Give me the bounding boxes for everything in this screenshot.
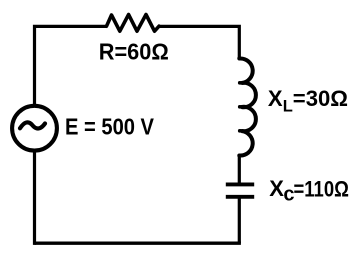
wire top-right segment [159,26,239,59]
ac source sine wave [20,122,45,128]
svg-text:X: X [268,86,283,111]
capacitor C bottom plate [226,195,254,199]
wire inductor to capacitor [238,155,241,183]
svg-text:R=60Ω: R=60Ω [99,39,169,65]
wire bottom-left segment [33,153,36,245]
wire capacitor to bottom [238,197,241,243]
inductor cusp tail 3 [240,129,244,133]
svg-text:X: X [269,176,284,201]
inductor XL coil [239,58,256,155]
wire top-left segment [35,26,107,104]
ac source E circle [12,106,57,151]
wire bottom segment [35,241,241,244]
svg-text:L: L [283,98,293,116]
inductor cusp tail 1 [240,81,244,85]
svg-text:=110Ω: =110Ω [294,176,349,201]
svg-text:E = 500 V: E = 500 V [65,114,155,140]
svg-text:=30Ω: =30Ω [293,86,348,111]
capacitor C top plate [226,182,254,186]
resistor R [107,15,160,32]
inductor cusp tail 2 [240,105,244,109]
